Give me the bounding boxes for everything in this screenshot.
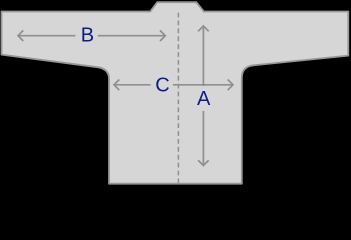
svg-text:A: A bbox=[197, 88, 211, 110]
arrow A top head bbox=[198, 26, 209, 31]
arrow C line bbox=[114, 84, 233, 86]
arrow B line bbox=[18, 35, 165, 37]
arrow B left head bbox=[18, 30, 23, 41]
svg-text:B: B bbox=[81, 25, 94, 47]
garment body (kimono outline) bbox=[2, 2, 349, 184]
arrow A bottom head bbox=[198, 160, 209, 165]
center dashed line bbox=[177, 13, 179, 184]
label A halo bbox=[194, 86, 214, 111]
arrow C right head bbox=[228, 80, 233, 91]
arrow A line bbox=[202, 26, 204, 166]
arrow B right head bbox=[160, 30, 165, 41]
arrow C left head bbox=[114, 80, 119, 91]
label B halo bbox=[75, 26, 97, 43]
svg-text:C: C bbox=[155, 75, 169, 97]
label C halo bbox=[151, 76, 173, 93]
